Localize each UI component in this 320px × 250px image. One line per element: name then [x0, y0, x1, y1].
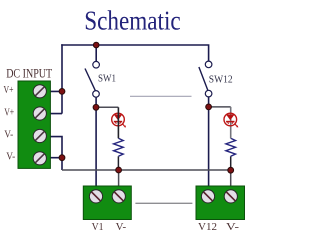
svg-text:SW1: SW1 — [98, 73, 116, 85]
svg-text:V-: V- — [6, 151, 15, 163]
svg-text:DC INPUT: DC INPUT — [6, 67, 52, 81]
svg-text:V1: V1 — [92, 221, 104, 233]
svg-text:V+: V+ — [4, 84, 14, 96]
svg-text:V+: V+ — [4, 107, 14, 119]
svg-text:SW12: SW12 — [209, 74, 233, 86]
svg-text:V-: V- — [116, 221, 127, 233]
svg-text:V-: V- — [226, 221, 239, 233]
svg-text:Schematic: Schematic — [84, 5, 181, 36]
svg-text:V12: V12 — [198, 221, 217, 233]
svg-text:V-: V- — [4, 129, 13, 141]
